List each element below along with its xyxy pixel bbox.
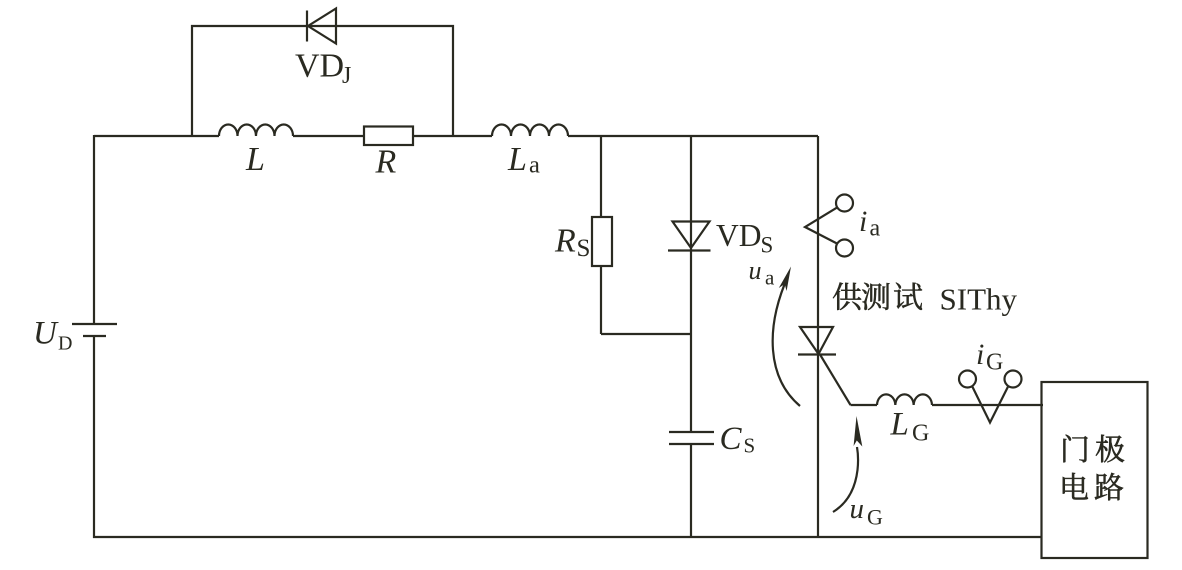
wire: R to La (413, 135, 492, 137)
source U_D long plate (72, 323, 117, 325)
text 供测试 (833, 282, 922, 310)
wire: Rs to snubber node (601, 333, 691, 335)
wire: left vertical upper (93, 135, 95, 324)
svg-text:U: U (33, 316, 59, 352)
svg-text:i: i (859, 205, 867, 238)
wire: Lg to gate box (932, 404, 1043, 406)
text 门极 (1063, 435, 1124, 463)
thyristor SIThy cathode bar (798, 353, 836, 355)
svg-text:a: a (870, 216, 881, 242)
probe iG vee (972, 386, 1008, 422)
inductor Lg (877, 394, 932, 405)
source U_D short plate (83, 335, 106, 337)
svg-text:C: C (720, 421, 743, 457)
inductor L (219, 125, 293, 137)
diode VD_J cathode bar (306, 11, 308, 42)
wire: Rs branch vertical (600, 136, 602, 334)
capacitor Cs bottom plate (669, 443, 714, 445)
probe iG terminal right (1005, 371, 1022, 388)
wire: L to R (293, 135, 364, 137)
probe ia terminal bottom (836, 240, 853, 257)
wire: snubber branch vertical upper (690, 136, 692, 432)
inductor La (492, 125, 568, 137)
svg-text:L: L (245, 141, 265, 178)
svg-text:S: S (761, 233, 774, 258)
resistor Rs (592, 217, 612, 266)
svg-text:S: S (744, 434, 756, 458)
svg-text:VD: VD (295, 48, 344, 85)
arrow ua curve (773, 276, 800, 406)
svg-text:L: L (890, 407, 909, 443)
svg-text:R: R (375, 144, 397, 181)
probe ia terminal top (836, 195, 853, 212)
svg-text:R: R (554, 223, 576, 260)
arrow ua head (779, 267, 791, 292)
probe ia vee (805, 207, 837, 243)
svg-text:a: a (529, 152, 540, 179)
arrow uG curve (833, 447, 858, 512)
box gate-drive unit (1042, 382, 1148, 558)
wire: bottom rail (93, 536, 1042, 538)
svg-text:u: u (850, 493, 865, 525)
svg-text:VD: VD (716, 218, 762, 253)
svg-text:L: L (507, 141, 527, 178)
svg-text:J: J (342, 63, 351, 89)
wire: VD_J snubber loop (192, 26, 453, 137)
resistor R (364, 127, 413, 146)
probe iG terminal left (959, 371, 976, 388)
svg-text:D: D (58, 333, 72, 355)
svg-text:i: i (976, 338, 984, 371)
wire: top rail left segment (94, 135, 219, 137)
arrow uG head (854, 416, 863, 447)
svg-text:u: u (749, 256, 762, 285)
wire: La to anode node (568, 135, 818, 137)
diode VDs cathode bar (668, 249, 711, 251)
diode VDs triangle (673, 222, 710, 249)
text 电路 (1063, 473, 1123, 501)
svg-text:a: a (765, 266, 775, 290)
svg-text:G: G (986, 350, 1003, 376)
wire: snubber branch vertical lower (690, 444, 692, 537)
thyristor SIThy triangle (800, 327, 833, 354)
capacitor Cs top plate (669, 431, 714, 433)
wire: anode vertical (817, 136, 819, 537)
svg-text:G: G (912, 421, 929, 447)
wire: gate lead diagonal (820, 355, 851, 406)
svg-text:SIThy: SIThy (940, 282, 1018, 317)
svg-text:G: G (867, 505, 883, 530)
wire: left vertical lower (93, 336, 95, 538)
wire: gate to Lg (851, 404, 878, 406)
svg-text:S: S (577, 235, 591, 262)
diode VD_J triangle (308, 9, 336, 44)
